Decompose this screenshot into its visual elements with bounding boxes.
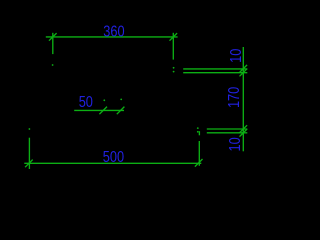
node: defpoint dot bottom pair lower bbox=[197, 131, 199, 133]
node: defpoint dot of 500 right bbox=[198, 131, 200, 135]
tick at right end of 50 dimension bbox=[117, 107, 125, 115]
node: defpoint dot right upper bbox=[173, 67, 175, 69]
svg-text:360: 360 bbox=[103, 23, 124, 41]
tick at left end of 360 dimension bbox=[49, 33, 57, 41]
svg-text:50: 50 bbox=[79, 94, 93, 112]
wire: dimension line 50 bbox=[74, 109, 124, 111]
extension line right of 360 dimension bbox=[172, 33, 174, 60]
wire: dimension line 500 bbox=[24, 162, 201, 164]
node: defpoint dot of 50 left bbox=[103, 99, 105, 101]
wire: lower extension line of 10 dimension (bottom) bbox=[207, 132, 248, 134]
extension line right of 500 dimension bbox=[198, 141, 200, 166]
svg-text:500: 500 bbox=[103, 149, 124, 167]
node: defpoint dot left of 360 bbox=[52, 64, 54, 66]
node: defpoint dot right lower bbox=[173, 71, 175, 73]
node: defpoint dot of 50 right bbox=[120, 99, 122, 101]
svg-text:10: 10 bbox=[228, 49, 246, 63]
svg-text:10: 10 bbox=[227, 137, 245, 151]
wire: dimension line 360 bbox=[46, 36, 178, 38]
extension line left of 500 dimension bbox=[28, 138, 30, 169]
tick on vertical dim at y=72.8 bbox=[240, 69, 248, 77]
wire: lower extension line of 10 dimension (top) bbox=[183, 72, 247, 74]
extension line left of 360 dimension bbox=[52, 33, 54, 54]
tick at right end of 360 dimension bbox=[170, 33, 178, 41]
node: defpoint dot bottom pair upper bbox=[197, 127, 199, 129]
svg-text:170: 170 bbox=[226, 87, 244, 108]
wire: vertical dimension line right bbox=[242, 47, 244, 151]
tick at left end of 50 dimension bbox=[99, 107, 107, 115]
tick on vertical dim at y=69 bbox=[240, 65, 248, 73]
tick on vertical dim at y=129 bbox=[240, 125, 248, 133]
node: defpoint dot of 500 left bbox=[29, 128, 31, 130]
wire: upper extension line of 10 dimension (top) bbox=[183, 68, 247, 70]
tick on vertical dim at y=132.8 bbox=[240, 129, 248, 137]
tick at left end of 500 dimension bbox=[25, 160, 33, 168]
wire: upper extension line of 10 dimension (bottom) bbox=[207, 128, 248, 130]
tick at right end of 500 dimension bbox=[195, 159, 203, 167]
